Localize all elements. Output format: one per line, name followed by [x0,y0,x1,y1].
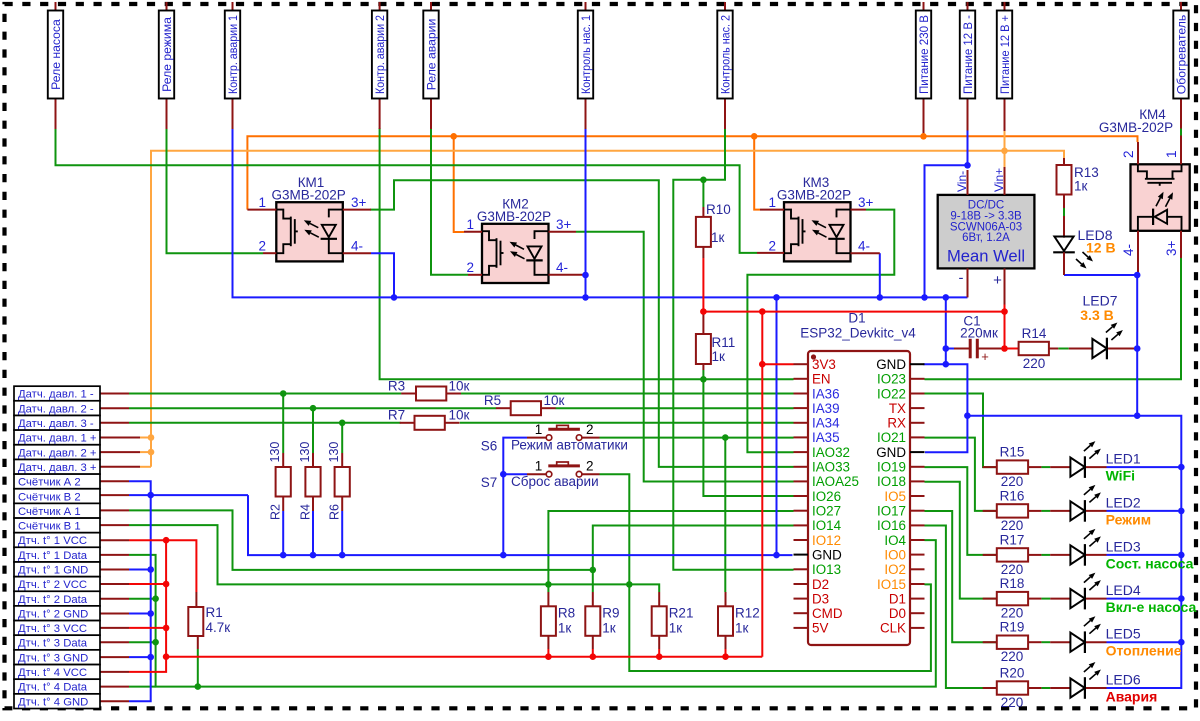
resistor R11 1к [696,312,735,370]
svg-text:LED4: LED4 [1106,582,1141,598]
svg-text:Контроль нас. 1: Контроль нас. 1 [579,15,593,94]
connector Дтч. t° 1 VCC [14,533,100,548]
svg-text:IO14: IO14 [812,518,842,533]
svg-text:IO27: IO27 [812,504,841,519]
resistor R7 10к [388,408,470,430]
chip pin IAO32 (left 7) [794,445,850,460]
wire Дтч VCC bus [129,540,196,592]
svg-text:+: + [981,349,989,364]
wire S6 pin2 to chip IA35 [600,437,794,439]
svg-text:G3MB-202P: G3MB-202P [777,188,851,203]
wire Датч. давл. 2 - to R5 [129,407,496,409]
svg-text:130: 130 [327,442,341,463]
stub Дтч. t 3 Data [100,641,129,643]
KM1 pin labels [258,195,366,254]
svg-text:CMD: CMD [812,606,843,621]
chip pin IO21 (right 6) [877,430,925,445]
junction dot 12V- bus / jog (dot) [921,294,928,301]
connector Дтч. t° 1 Data [14,547,100,562]
connector Счётчик В 2 [14,489,100,504]
svg-text:IA34: IA34 [812,416,840,431]
svg-text:R2: R2 [269,504,283,520]
junction dot LED rail / LED4 (dot) [1178,595,1185,602]
resistor R13 1к [1057,158,1099,208]
chip pin IO18 (right 9) [877,474,925,489]
resistor R12 1к [718,592,760,649]
wire R8 bottom to rail [547,649,549,657]
relay KM2 label [477,197,551,225]
wire chip 3V3 pin to riser [762,363,793,365]
svg-text:IAO32: IAO32 [812,445,850,460]
stub Дтч. t 4 VCC [100,671,129,673]
junction dot S7 pin1 (dot) [500,471,507,478]
wire GND main bus to chip GND left pin [248,495,793,555]
svg-text:IO0: IO0 [884,547,906,562]
wire orange drop to KM3 pin 1 [754,136,760,209]
svg-text:Дтч. t° 3 VCC: Дтч. t° 3 VCC [18,623,87,635]
junction dot давл.2- / R4 (dot) [310,405,317,412]
svg-text:3V3: 3V3 [812,357,836,372]
wire C1 left plate to GND [946,348,954,350]
svg-text:IO2: IO2 [884,562,906,577]
wire chip IO16 to R20 [925,526,997,689]
svg-text:Отопление: Отопление [1106,643,1182,659]
connector Датч. давл. 3 + [14,459,100,474]
wire chip GND right pins loop [923,364,967,452]
wire GND: bus to chip GND right pin [945,297,947,364]
wire Счётчик В 2 to GND bus [129,494,248,496]
wire KM3 3+ to chip IAO32 [747,210,894,453]
connector Дтч. t° 2 GND [14,606,100,621]
svg-text:3+: 3+ [858,195,874,210]
junction dot LED rail / LED5 (dot) [1178,639,1185,646]
connector Датч. давл. 2 + [14,445,100,460]
junction dot 3.3V / R10-R11 (dot) [700,308,707,315]
KM4 pin 4- stub [1137,231,1139,273]
stub Дтч. t 4 GND [100,700,129,702]
KM2 pin 1 stub [464,231,482,233]
wire R2 bottom [282,511,284,555]
svg-text:Реле аварии: Реле аварии [424,19,438,91]
wire 12V- bus drop to GND bus [776,297,778,555]
KM1 pin 1 stub [247,209,276,211]
wire KM2 3+ to chip IAOA25 [576,232,794,482]
relay KM3 label [777,175,851,203]
wire R21 bottom to rail [658,649,660,657]
junction dot Контроль нас.1 / 12V- bus (dot) [582,294,589,301]
resistor R6 130 [327,442,350,520]
svg-text:1: 1 [466,217,474,232]
svg-text:3+: 3+ [351,195,367,210]
svg-text:Счётчик А 1: Счётчик А 1 [18,506,81,518]
wire branch S6 net to R12 top [724,438,726,592]
resistor R17 220 [983,532,1042,577]
wire Дтч. t Data bus to chip IO4 [129,540,936,687]
chip pin IO16 (right 12) [877,518,925,533]
svg-text:LED6: LED6 [1106,672,1141,688]
svg-text:R1: R1 [206,605,223,620]
connector Дтч. t° 2 Data [14,591,100,606]
KM2 pin 3+ stub [549,231,577,233]
svg-text:Дтч. t° 4 GND: Дтч. t° 4 GND [18,696,88,708]
junction dot Data bus / R1 (dot) [195,683,202,690]
junction dot GND bus / R6 (dot) [339,552,346,559]
svg-text:10к: 10к [544,393,565,408]
resistor R9 1к [585,592,619,649]
Vin+ pin label and stub [992,167,1006,195]
junction dot EN net / R11-IO26 (dot) [700,376,707,383]
chip pin IO4 (right 13) [884,533,924,548]
wire KM1 4- to 12V- bus [371,253,394,297]
wire chip IO14 to R9 top [593,526,794,593]
svg-text:Счётчик В 2: Счётчик В 2 [18,491,81,503]
chip pin IO14 (left 12) [794,518,842,533]
LED LED7 3.3 В [1069,293,1138,360]
svg-text:R21: R21 [669,606,694,621]
KM4 pin 3+ stub [1180,231,1182,258]
chip pin CMD (left 18) [794,606,843,621]
svg-text:220: 220 [1001,606,1024,621]
wire Дтч. t 3 Data to bus [129,641,156,643]
connector Дтч. t° 3 VCC [14,621,100,636]
chip pin IO5 (right 10) [884,489,924,504]
push button S7 [527,459,600,477]
svg-text:S6: S6 [481,439,498,454]
chip pin 5V (left 19) [794,621,829,636]
svg-text:D0: D0 [889,606,906,621]
svg-text:IO18: IO18 [877,474,906,489]
wire green segment R13 to LED8 [1063,208,1065,216]
svg-text:R15: R15 [1000,445,1025,460]
svg-text:IO15: IO15 [877,577,906,592]
svg-text:4-: 4- [858,239,870,254]
svg-text:10к: 10к [449,408,470,423]
svg-text:Датч. давл. 3 +: Датч. давл. 3 + [18,462,97,474]
svg-text:Питание 12 В -: Питание 12 В - [961,15,975,94]
wire Контроль нас. 2 to chip IO13 [673,128,793,570]
stub Дтч. t 3 VCC [100,627,129,629]
wire Mean Well + down to C1/R14 [1004,305,1006,349]
svg-text:220: 220 [1001,562,1024,577]
svg-text:Датч. давл. 3 -: Датч. давл. 3 - [18,418,94,430]
wire chip IO17 to R19 [925,511,997,642]
junction dot rail / R21 (dot) [656,653,663,660]
relay KM1 label [271,175,345,203]
stub Дтч. t 1 VCC [100,539,129,541]
wire Дтч. t 3 VCC [129,627,166,629]
wire R6 top [341,423,343,453]
stub Датч. давл. 1 - [100,393,129,395]
wire C1 right to R14 [1005,348,1019,350]
KM1 pin 3+ stub [343,209,371,211]
resistor R1 4.7к [188,592,230,649]
svg-text:Дтч. t° 2 VCC: Дтч. t° 2 VCC [18,579,87,591]
svg-text:Счётчик В 1: Счётчик В 1 [18,521,81,533]
svg-text:IAO33: IAO33 [812,460,850,475]
svg-text:-: - [959,270,964,287]
junction dot GND bus / R2 (dot) [280,552,287,559]
junction dot rail / R9 (dot) [590,653,597,660]
svg-text:1к: 1к [669,621,683,636]
chip pin TX (right 4) [889,401,925,416]
wire Дтч. t 4 Data to bus [129,686,156,688]
KM3 pin 4- stub [851,252,880,254]
svg-text:2: 2 [586,422,594,437]
Mean Well + output pin [993,268,1004,304]
svg-text:Авария: Авария [1106,689,1158,705]
stub Счётчик А 1 [100,509,129,511]
resistor R8 1к [541,592,575,649]
junction dot А1 line / R9 (dot) [590,567,597,574]
stub Датч. давл. 3 - [100,422,129,424]
stub Датч. давл. 1 + [100,437,140,439]
resistor R20 220 [983,666,1042,711]
svg-text:GND: GND [812,547,842,562]
wire S7 pin1 [503,473,527,475]
chip pin IO13 (left 15) [794,562,842,577]
junction dot 12V- bus / GND drop (dot) [943,294,950,301]
chip pin IO26 (left 10) [794,489,842,504]
svg-text:Счётчик А 2: Счётчик А 2 [18,477,81,489]
junction dot S6 net / R12 (dot) [722,434,729,441]
wire R11 bottom to chip IO26 through EN net [703,370,793,496]
svg-text:4-: 4- [1121,244,1136,256]
svg-text:IO17: IO17 [877,504,906,519]
junction dot +12V bus / Питание 12 В + (dot) [1001,148,1008,155]
connector Счётчик А 2 [14,474,100,489]
chip pin IO27 (left 11) [794,504,842,519]
wire Датч. давл. 3 - to R7 [129,422,401,424]
junction dot GND bus / R4 (dot) [310,552,317,559]
chip pin EN (left 2) [794,372,831,387]
svg-text:LED3: LED3 [1106,538,1141,554]
chip pin IO0 (right 14) [884,547,924,562]
R6 stubs [341,453,343,511]
chip pin D0 (right 18) [889,606,925,621]
junction dot Контроль нас.1 / KM2 4- (dot) [582,272,589,279]
svg-text:Vin+: Vin+ [992,168,1006,192]
wire S7 pin2 to chip IO15 [600,474,931,671]
junction dot В1 line / R8 (dot) [545,581,552,588]
wire Счётчик В 1 to R8/R21 node [129,525,659,592]
wire KM3 4- drop [879,253,881,297]
stub Дтч. t 2 Data [100,598,129,600]
chip pin 3V3 (left 1) [794,357,836,372]
wire green segment R16 to LED2 [1041,510,1050,512]
svg-text:Реле насоса: Реле насоса [49,19,63,90]
wire pull-up rail bottom [166,656,762,658]
svg-text:1: 1 [1164,150,1179,158]
svg-text:Датч. давл. 1 -: Датч. давл. 1 - [18,389,94,401]
stub Датч. давл. 2 + [100,451,140,453]
junction dot GND bus / drop (dot) [773,552,780,559]
connector Контр. аварии 1 [225,2,240,129]
svg-text:4.7к: 4.7к [206,620,231,635]
stub Дтч. t 1 GND [100,569,129,571]
wire Контр. аварии 2 to chip EN [380,128,794,379]
svg-text:R12: R12 [735,606,760,621]
junction dot 12V- bus / KM1 4- (dot) [391,294,398,301]
svg-text:R14: R14 [1022,326,1047,341]
svg-text:1: 1 [258,195,266,210]
svg-text:G3MB-202P: G3MB-202P [1099,120,1173,135]
svg-text:Питание 12 В +: Питание 12 В + [998,15,1012,94]
KM1 pin 4- stub [343,252,371,254]
junction dot VCC / 3 VCC (dot) [163,625,170,632]
svg-text:10к: 10к [449,378,470,393]
junction dot left GND bus / 3 GND (dot) [147,654,154,661]
chip pin IO23 (right 2) [877,372,925,387]
svg-text:Vin-: Vin- [955,171,969,192]
wire Датч. давл. 1 - to R3 [129,393,401,395]
chip pin GND (right 7) [876,445,924,460]
resistor R16 220 [983,488,1042,533]
connector Питание 12 В + [997,2,1012,131]
junction dot +12V bus / давл. 2 + (dot) [148,449,155,456]
chip pin IA35 (left 6) [794,430,840,445]
stub Дтч. t 1 Data [100,554,129,556]
svg-text:Обогреватель: Обогреватель [1174,15,1188,94]
KM1 pin 2 stub [263,252,276,254]
junction dot Data bus / 2 Data (dot) [152,595,159,602]
svg-text:D2: D2 [812,577,829,592]
svg-text:Дтч. t° 2 GND: Дтч. t° 2 GND [18,608,88,620]
resistor R19 220 [983,620,1042,665]
svg-text:R7: R7 [388,408,405,423]
svg-text:Дтч. t° 4 Data: Дтч. t° 4 Data [18,682,88,694]
connector Реле аварии [423,2,438,129]
wire KM1 3+ to chip IAO33 [370,180,794,467]
wire S6/S7 pin1 to GND bus [503,438,527,555]
wire VCC bus vertical [129,540,166,672]
svg-text:3+: 3+ [556,217,572,232]
svg-text:Дтч. t° 4 VCC: Дтч. t° 4 VCC [18,667,87,679]
wire Контроль нас. 1 drop [585,128,587,297]
wire green segment Обогреватель [1180,128,1182,137]
KM4 pin labels [1121,150,1179,256]
svg-text:R18: R18 [1000,576,1025,591]
KM2 pin 4- stub [549,274,586,276]
svg-text:Режим: Режим [1106,511,1151,527]
svg-text:R9: R9 [602,606,619,621]
svg-text:2: 2 [1121,150,1136,158]
connector Дтч. t° 4 GND [14,694,100,709]
wire R1 bottom to Data bus [197,649,199,687]
svg-text:2: 2 [586,459,594,474]
wire R3 to chip IA36 [460,393,793,395]
wire green segment R14 to LED7 [1058,348,1069,350]
svg-text:Дтч. t° 1 Data: Дтч. t° 1 Data [18,550,88,562]
KM3 pin 2 stub [757,252,784,254]
svg-text:WiFi: WiFi [1106,468,1135,484]
R2 stubs [282,453,284,511]
svg-text:LED5: LED5 [1106,626,1141,642]
wire LED cathode rail [967,416,1181,688]
KM3 pin 1 stub [760,209,784,211]
resistor R10 1к [696,202,731,258]
svg-text:LED2: LED2 [1106,494,1141,510]
resistor R21 1к [652,592,694,649]
KM4 pin 2 stub [1137,142,1139,164]
chip pin GND (left 14) [794,547,843,562]
svg-text:G3MB-202P: G3MB-202P [477,209,551,224]
svg-text:LED1: LED1 [1106,451,1141,467]
junction dot 230V bus / KM2 pin1 (dot) [450,133,457,140]
wire R4 top [312,408,314,453]
wire R5 to chip IA39 [556,407,794,409]
wire green segment R19 to LED5 [1041,641,1050,643]
svg-text:IO21: IO21 [877,430,906,445]
connector Питание 230 В [916,2,931,136]
svg-text:6Вт, 1.2А: 6Вт, 1.2А [962,232,1010,244]
junction dot давл.3- / R6 (dot) [339,420,346,427]
svg-text:R8: R8 [558,606,575,621]
wire chip IO27 to R8 top [548,511,793,592]
junction dot Vin- branch (dot) [964,162,971,169]
connector Дтч. t° 3 Data [14,635,100,650]
svg-text:R16: R16 [1000,488,1025,503]
chip pin IA34 (left 5) [794,416,841,431]
wire chip IO19 to R17 [925,467,997,555]
svg-text:IO4: IO4 [884,533,906,548]
svg-text:220: 220 [1001,474,1024,489]
junction dot riser / 3V3 (dot) [759,361,766,368]
junction dot left GND bus / 2 GND (dot) [147,610,154,617]
svg-text:2: 2 [258,239,266,254]
junction dot LED rail / LED2 (dot) [1178,508,1185,515]
junction dot GND drop / LED rail (dot) [964,412,971,419]
junction dot left GND bus / 1 GND (dot) [147,566,154,573]
svg-text:GND: GND [876,445,906,460]
wire left GND bus (Счётчик А2 - Дтч GND) [129,481,151,701]
wire Датч. давл. 3 + to +12V bus [140,466,151,468]
svg-text:ESP32_Devkitc_v4: ESP32_Devkitc_v4 [800,326,916,341]
wire KM4 3+ to chip IO23 [925,258,1182,379]
wire Дтч. t 1 GND [129,569,151,571]
wire blue 12V- bus (Контр. аварии 1 to Vin-) [233,128,968,297]
stub Дтч. t 3 GND [100,656,129,658]
R4 stubs [312,453,314,511]
Mean Well - output pin [959,268,968,297]
solid state relay KM4 G3MB-202P (rotated) [1131,164,1190,231]
junction dot GND / C1 (dot) [943,345,950,352]
wire R2 top [282,394,284,454]
svg-text:220: 220 [1001,695,1024,710]
svg-text:Датч. давл. 2 -: Датч. давл. 2 - [18,403,94,415]
junction dot rail / R12 (dot) [722,653,729,660]
connector Питание 12 В - [960,2,975,131]
chip pin CLK (right 19) [880,621,925,636]
svg-text:R19: R19 [1000,620,1025,635]
junction dot давл.1- / R2 (dot) [280,390,287,397]
junction dot GND right pin (dot) [943,361,950,368]
chip pin IO17 (right 11) [877,504,925,519]
svg-text:R6: R6 [328,504,342,520]
svg-text:1: 1 [535,459,543,474]
KM4 pin 1 stub [1180,136,1182,165]
junction dot VCC / 1 VCC (dot) [163,537,170,544]
svg-text:IO16: IO16 [877,518,906,533]
junction dot left GND bus / В2 (dot) [147,492,154,499]
svg-text:12 В: 12 В [1086,240,1116,256]
svg-text:2: 2 [768,239,776,254]
svg-text:220: 220 [1001,649,1024,664]
wire chip IO22 to R15 [925,394,997,468]
svg-text:R17: R17 [1000,532,1025,547]
svg-text:4-: 4- [556,260,568,275]
wire branch to R10 top [702,180,704,207]
solid state relay KM2 G3MB-202P [482,224,549,283]
